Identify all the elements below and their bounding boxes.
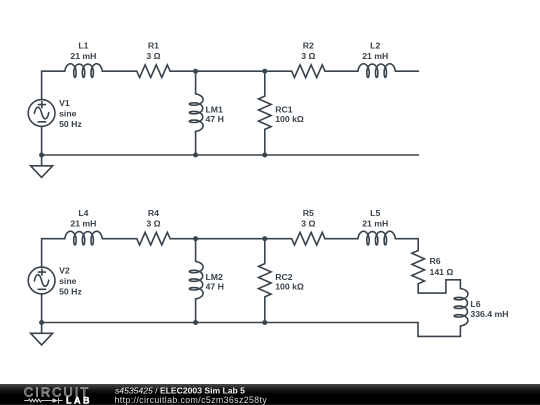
- svg-text:R4: R4: [148, 208, 159, 218]
- svg-text:V2: V2: [59, 266, 70, 276]
- svg-text:RC1: RC1: [275, 104, 293, 114]
- svg-text:R1: R1: [148, 40, 159, 50]
- svg-text:3 Ω: 3 Ω: [146, 219, 160, 229]
- svg-text:3 Ω: 3 Ω: [146, 51, 160, 61]
- svg-text:141 Ω: 141 Ω: [430, 267, 454, 277]
- svg-text:R6: R6: [430, 256, 441, 266]
- svg-text:sine: sine: [59, 276, 77, 286]
- svg-text:L2: L2: [370, 40, 380, 50]
- svg-text:V1: V1: [59, 98, 70, 108]
- svg-text:3 Ω: 3 Ω: [301, 51, 315, 61]
- svg-text:21 mH: 21 mH: [70, 219, 96, 229]
- svg-text:47 H: 47 H: [206, 282, 224, 292]
- svg-text:21 mH: 21 mH: [362, 51, 388, 61]
- svg-text:100 kΩ: 100 kΩ: [275, 114, 304, 124]
- svg-text:s4535425 / ELEC2003 Sim Lab 5: s4535425 / ELEC2003 Sim Lab 5: [115, 385, 245, 395]
- svg-text:3 Ω: 3 Ω: [301, 219, 315, 229]
- svg-text:RC2: RC2: [275, 272, 293, 282]
- svg-text:50 Hz: 50 Hz: [59, 287, 82, 297]
- svg-text:L6: L6: [470, 299, 480, 309]
- svg-text:21 mH: 21 mH: [70, 51, 96, 61]
- svg-text:47 H: 47 H: [206, 114, 224, 124]
- svg-text:LAB: LAB: [66, 396, 92, 405]
- svg-text:336.4 mH: 336.4 mH: [470, 309, 508, 319]
- svg-text:R2: R2: [303, 40, 314, 50]
- svg-text:21 mH: 21 mH: [362, 219, 388, 229]
- svg-text:L4: L4: [78, 208, 88, 218]
- svg-text:http://circuitlab.com/c5zm36sz: http://circuitlab.com/c5zm36sz258ty: [115, 395, 268, 405]
- svg-text:LM2: LM2: [206, 272, 224, 282]
- svg-text:sine: sine: [59, 109, 77, 119]
- svg-text:R5: R5: [303, 208, 314, 218]
- svg-text:100 kΩ: 100 kΩ: [275, 282, 304, 292]
- svg-text:LM1: LM1: [206, 104, 224, 114]
- svg-text:L5: L5: [370, 208, 380, 218]
- svg-text:50 Hz: 50 Hz: [59, 119, 82, 129]
- svg-text:L1: L1: [78, 40, 88, 50]
